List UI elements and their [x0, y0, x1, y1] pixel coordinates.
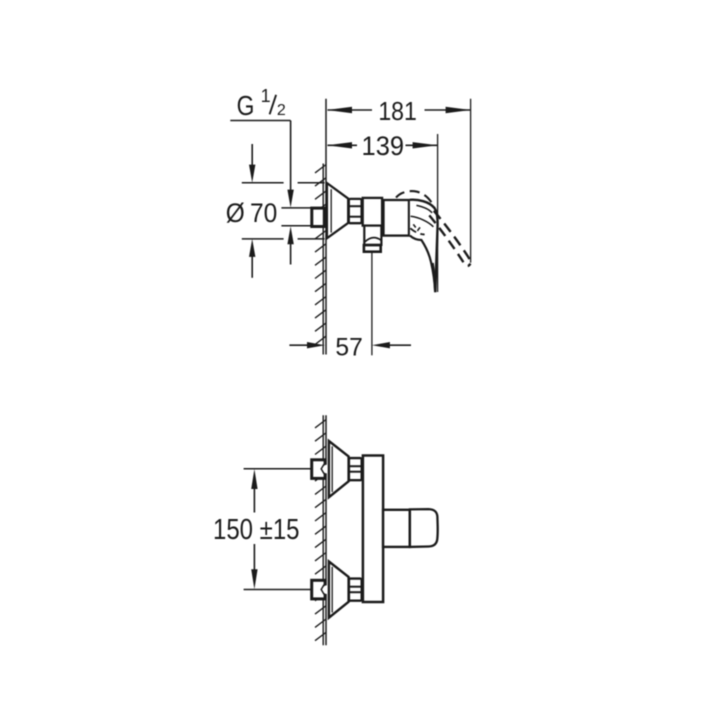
dimension 139 line [328, 144, 438, 146]
dimension 70 arrows [251, 144, 253, 166]
svg-text:150 ±15: 150 ±15 [213, 514, 300, 546]
wall hatching top drawing [315, 165, 326, 345]
svg-text:G: G [237, 90, 255, 121]
hex nut side view [349, 199, 362, 223]
lower escutcheon cone [329, 562, 349, 618]
handle shading arc 1 [416, 205, 432, 213]
leader G 1/2 [230, 120, 290, 122]
upper union stub [312, 460, 325, 479]
escutcheon cone [327, 183, 348, 238]
handle lower curve [410, 236, 435, 293]
pipe thread edge lines [281, 208, 310, 226]
dimension 150 leaders [244, 468, 311, 470]
dashed handle base arc [410, 228, 424, 234]
svg-text:139: 139 [362, 131, 405, 161]
svg-text:70: 70 [250, 198, 277, 228]
cartridge stem [383, 510, 410, 547]
dimension 57 [289, 344, 308, 346]
leader G 1/2 lower arrow [290, 243, 292, 265]
valve body [384, 200, 410, 236]
dashed handle upper edge [434, 211, 471, 263]
handle outer curve [410, 200, 438, 292]
handle shading arc 2 [411, 216, 434, 227]
dimension 139 arrowheads [327, 142, 352, 148]
handle tip darkening [433, 263, 436, 292]
dimension 150 line and arrows [253, 487, 255, 513]
dimension 181 line [328, 109, 471, 111]
extension line / wall upper 181-139 left [325, 99, 327, 355]
svg-text:181: 181 [378, 96, 417, 126]
hex pipe stub behind wall [312, 208, 325, 226]
svg-text:Ø: Ø [226, 198, 245, 228]
shower outlet hose band [364, 245, 381, 252]
cartridge dome cap [410, 509, 438, 547]
shower outlet upper block [364, 226, 381, 245]
dashed handle lower edge [429, 215, 470, 266]
lower hex nut [349, 579, 362, 601]
wall line top drawing [322, 164, 324, 355]
wall hatching bottom drawing [315, 420, 326, 641]
extension line right 139 [437, 134, 439, 292]
dashed notch [413, 224, 421, 230]
dashed handle alternate position: top arc [396, 191, 434, 208]
extension line right 181 [470, 99, 472, 263]
svg-text:1: 1 [261, 86, 271, 106]
extension lines diameter 70 [242, 183, 325, 239]
upper escutcheon cone [329, 441, 349, 497]
handle solid fill [410, 200, 438, 292]
shower outlet shoulder arc [365, 238, 381, 242]
svg-text:2: 2 [277, 102, 286, 119]
dimension 181 arrowheads [327, 107, 352, 113]
svg-text:57: 57 [335, 333, 362, 361]
connector block [363, 198, 382, 226]
outlet centerline [371, 253, 373, 356]
lower union stub [312, 580, 325, 599]
upper hex nut [349, 458, 362, 480]
wall line bottom drawing [322, 415, 324, 645]
body plate [363, 456, 383, 603]
